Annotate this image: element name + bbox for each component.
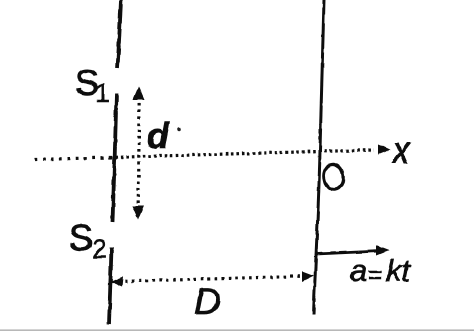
d dotted double arrow line [136, 97, 140, 210]
svg-text:S: S [69, 217, 93, 258]
D left arrowhead [110, 277, 123, 288]
d arrow top head [133, 86, 145, 100]
svg-text:D: D [194, 281, 221, 322]
svg-text:d: d [147, 115, 170, 156]
D right arrowhead [302, 271, 314, 282]
stray dot right of d [178, 128, 182, 132]
svg-text:kt: kt [386, 253, 412, 288]
D dimension dotted line [118, 276, 308, 282]
svg-text:=: = [368, 261, 383, 289]
slit barrier middle segment [113, 93, 117, 222]
a=kt arrowhead [376, 246, 389, 256]
svg-text:1: 1 [95, 78, 110, 108]
axis arrowhead [378, 145, 391, 155]
screen line [314, 0, 325, 315]
svg-text:x: x [391, 129, 410, 172]
svg-text:a: a [350, 253, 367, 288]
axis dotted line [35, 158, 110, 160]
bottom scan edge line [0, 329, 474, 331]
slit barrier upper segment [118, 0, 122, 68]
slit barrier lower segment [109, 247, 112, 324]
label O (drawn oval) [322, 163, 345, 191]
a=kt arrow line [316, 251, 380, 254]
d arrow bottom head [132, 206, 144, 220]
svg-text:2: 2 [92, 234, 107, 264]
